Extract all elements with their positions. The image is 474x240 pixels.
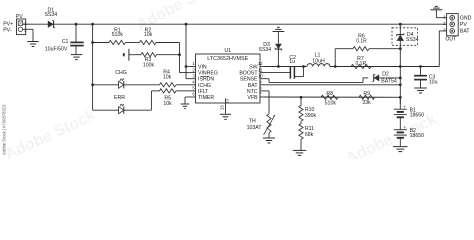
svg-text:SW: SW	[249, 65, 257, 71]
svg-text:TIMER: TIMER	[198, 95, 214, 101]
svg-text:510k: 510k	[325, 101, 337, 107]
svg-text:NTC: NTC	[247, 89, 258, 95]
svg-text:CHG: CHG	[115, 70, 127, 76]
svg-text:SS34: SS34	[406, 37, 419, 43]
svg-text:PV: PV	[460, 22, 467, 28]
svg-text:11: 11	[258, 67, 263, 72]
svg-text:10k: 10k	[163, 101, 172, 107]
svg-text:OUT: OUT	[445, 36, 457, 42]
svg-text:R9: R9	[363, 91, 370, 97]
svg-text:PV+: PV+	[3, 21, 13, 27]
svg-text:BAT: BAT	[248, 83, 259, 89]
svg-text:PV-: PV-	[3, 28, 12, 34]
svg-text:10u: 10u	[429, 80, 438, 86]
svg-text:18650: 18650	[410, 133, 425, 139]
svg-text:IFLT: IFLT	[198, 89, 209, 95]
svg-text:0.1R: 0.1R	[356, 38, 367, 44]
svg-text:ERR: ERR	[114, 95, 125, 101]
svg-text:Adobe Stock | #700878323: Adobe Stock | #700878323	[2, 104, 7, 155]
svg-text:VINREG: VINREG	[198, 71, 218, 77]
svg-text:0.1R: 0.1R	[356, 61, 367, 67]
svg-text:SS34: SS34	[258, 47, 271, 53]
svg-text:10k: 10k	[163, 74, 172, 80]
svg-text:+: +	[403, 104, 406, 109]
svg-text:390k: 390k	[305, 113, 317, 119]
svg-text:13: 13	[219, 105, 224, 110]
svg-text:BAT54: BAT54	[381, 79, 397, 85]
svg-text:510k: 510k	[112, 32, 124, 38]
svg-text:13: 13	[224, 99, 229, 104]
svg-text:SENSE: SENSE	[240, 77, 258, 83]
svg-text:33k: 33k	[362, 100, 371, 106]
svg-text:ICHG: ICHG	[198, 83, 211, 89]
svg-text:VFB: VFB	[247, 95, 258, 101]
svg-text:PV: PV	[16, 14, 23, 20]
svg-text:SS34: SS34	[44, 12, 57, 18]
svg-text:100k: 100k	[143, 62, 155, 68]
svg-text:GND: GND	[460, 16, 472, 22]
svg-text:LTC3652HVMSE: LTC3652HVMSE	[207, 56, 248, 62]
svg-text:68k: 68k	[305, 132, 314, 138]
svg-text:BOOST: BOOST	[239, 71, 258, 77]
svg-text:10uF/50V: 10uF/50V	[45, 46, 68, 52]
svg-text:D2: D2	[382, 71, 389, 77]
svg-text:10k: 10k	[144, 32, 153, 38]
svg-text:R8: R8	[326, 91, 333, 97]
svg-text:TH: TH	[249, 119, 256, 125]
svg-text:18650: 18650	[410, 113, 425, 119]
svg-text:10: 10	[258, 73, 263, 78]
svg-text:ISHDN: ISHDN	[198, 77, 214, 83]
svg-text:VIN: VIN	[198, 65, 207, 71]
svg-text:C1: C1	[62, 39, 69, 45]
svg-text:BAT: BAT	[460, 29, 471, 35]
svg-text:10uH: 10uH	[312, 58, 325, 64]
svg-text:+: +	[403, 125, 406, 130]
svg-text:1u: 1u	[289, 59, 295, 65]
svg-text:U1: U1	[224, 48, 231, 54]
svg-text:12: 12	[258, 61, 263, 66]
svg-text:103AT: 103AT	[247, 125, 263, 131]
